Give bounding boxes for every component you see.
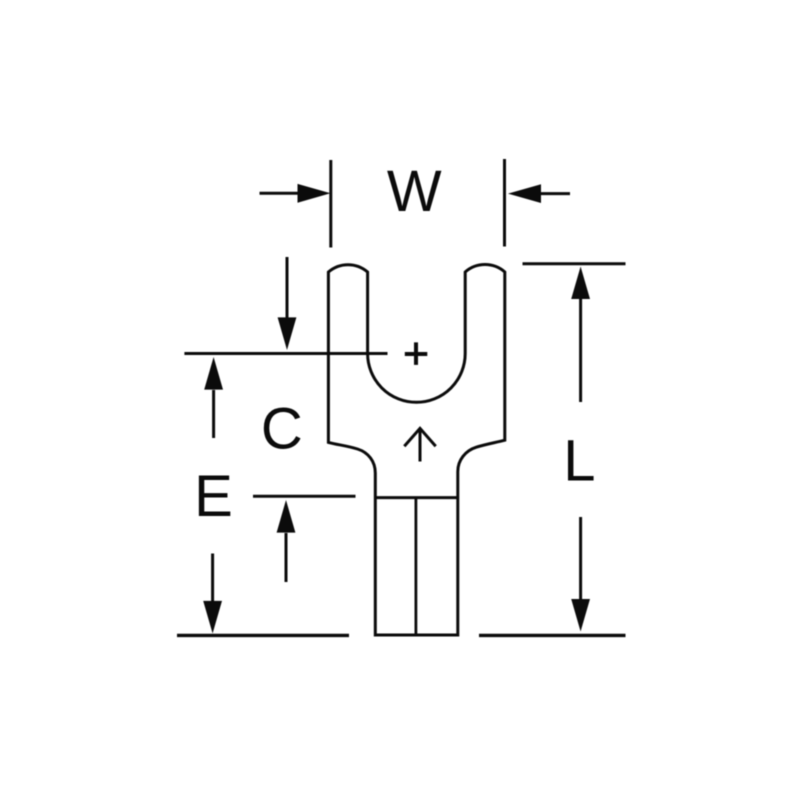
wire insertion arrow (open chevron): [404, 428, 435, 461]
bottom reference line left segment: [177, 634, 349, 637]
W extension line left: [329, 160, 332, 248]
W arrow left head: [298, 184, 331, 203]
stud center cross mark: [405, 342, 428, 365]
C arrow up head: [277, 500, 296, 533]
E crimp reference line: [253, 495, 356, 498]
barrel center seam line: [414, 498, 417, 635]
svg-text:L: L: [563, 429, 595, 494]
L arrow down head: [571, 599, 590, 632]
W arrow left shaft: [260, 192, 300, 195]
fork terminal body outline: [328, 265, 504, 635]
svg-text:W: W: [387, 159, 442, 224]
C dimension arrow down shaft: [286, 257, 289, 319]
svg-text:C: C: [261, 397, 303, 462]
svg-text:E: E: [194, 464, 233, 529]
L dimension arrow up shaft: [579, 299, 582, 402]
L arrow up head: [571, 267, 590, 300]
C dimension arrow up shaft: [285, 533, 288, 582]
E arrow down head: [203, 601, 222, 634]
L dimension arrow down shaft: [579, 517, 582, 600]
W arrow right shaft: [540, 192, 570, 195]
bottom reference line right segment: [479, 634, 626, 637]
C arrow down head: [278, 317, 297, 350]
E dimension arrow down shaft: [211, 554, 214, 603]
W arrow right head: [508, 184, 541, 203]
stud center reference line: [184, 352, 387, 355]
L top reference line: [523, 262, 626, 265]
E dimension arrow up shaft: [212, 390, 215, 438]
barrel crimp line: [375, 496, 458, 499]
E arrow up head: [204, 357, 223, 390]
W extension line right: [503, 159, 506, 247]
